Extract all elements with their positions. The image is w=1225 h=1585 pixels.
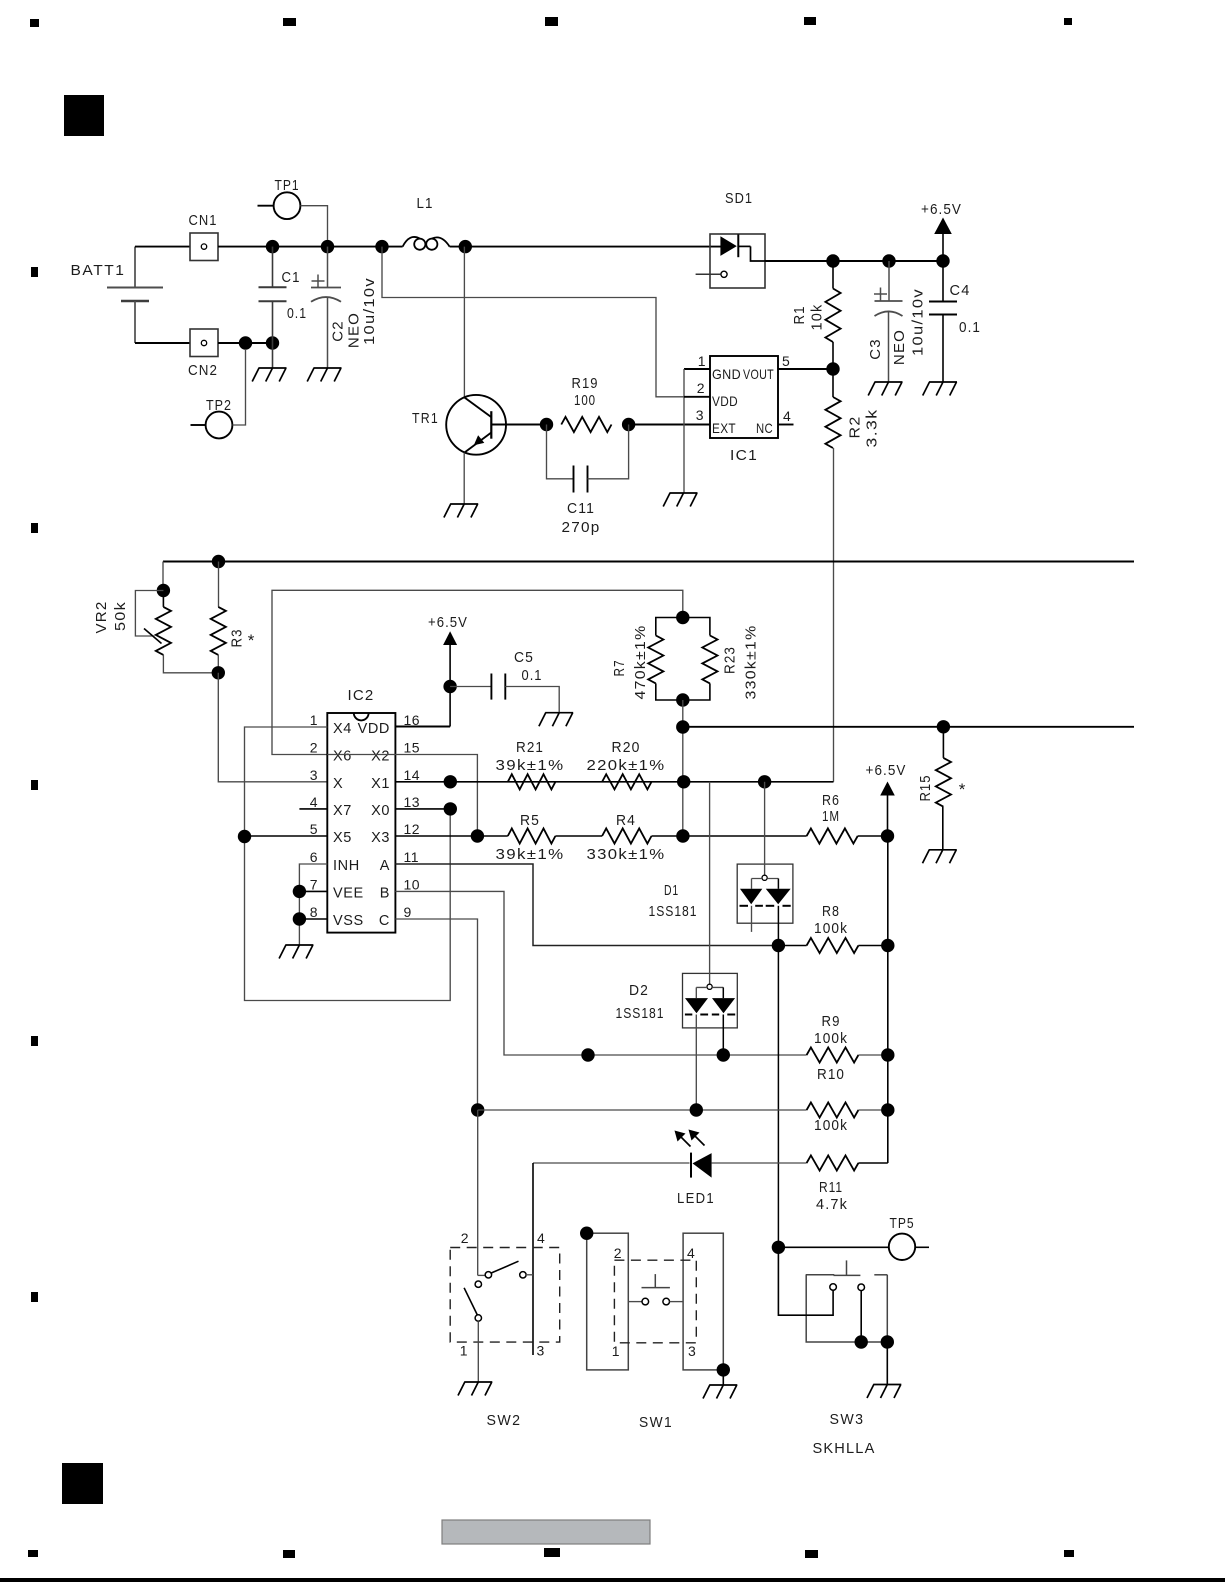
resistor R4 [555, 835, 602, 837]
svg-text:R8: R8 [822, 903, 840, 920]
transistor TR1 [446, 395, 506, 455]
svg-text:D1: D1 [664, 882, 679, 899]
wire SW2 pin1 to ground [477, 1321, 479, 1382]
node junction SW1 top left [580, 1227, 593, 1240]
wire X4 U-route to X1 X0 [245, 727, 451, 1001]
resistor R6 [683, 835, 807, 837]
svg-text:X7: X7 [333, 803, 352, 819]
wire D1 cathode down to TP5 node [777, 946, 779, 1248]
wire rail corner down to VR2 [162, 562, 164, 591]
wire TP2 to negative net [232, 349, 245, 425]
svg-text:X5: X5 [333, 830, 352, 846]
svg-text:100k: 100k [814, 1030, 848, 1047]
node junction R15 top [937, 720, 950, 733]
potentiometer VR2 [162, 591, 164, 607]
ground C1 [252, 368, 286, 382]
pin 2 VDD IC1 [684, 396, 710, 398]
svg-text:X0: X0 [371, 803, 390, 819]
wire R7R23 bottom to sense line [682, 700, 684, 836]
svg-text:NEO: NEO [346, 312, 363, 348]
pin 4 NC IC1 [778, 424, 794, 426]
node junction C1 bottom [266, 336, 279, 349]
svg-text:X1: X1 [371, 776, 390, 792]
node junction C route corner [471, 1103, 484, 1116]
svg-text:39k±1%: 39k±1% [496, 846, 565, 863]
svg-text:1: 1 [612, 1343, 620, 1359]
ground SW3 [867, 1385, 901, 1399]
wire feedback L1 node to IC1 VDD [382, 247, 710, 397]
svg-text:1: 1 [460, 1343, 468, 1359]
resistor R11 [807, 1155, 859, 1170]
wire battery positive to CN1 [135, 246, 190, 248]
wire IC1 GND to ground [683, 369, 685, 493]
resistor R1 [832, 261, 834, 289]
svg-text:CN1: CN1 [189, 212, 218, 229]
node junction D1 top [758, 775, 771, 788]
svg-text:R21: R21 [516, 739, 544, 756]
svg-text:5: 5 [310, 821, 318, 837]
node junction TP5 tap [772, 1241, 785, 1254]
svg-text:VDD: VDD [358, 721, 390, 737]
svg-text:0.1: 0.1 [959, 319, 981, 336]
svg-text:11: 11 [404, 849, 420, 865]
svg-text:D2: D2 [629, 982, 649, 999]
svg-text:+6.5V: +6.5V [921, 201, 962, 218]
svg-text:X: X [333, 776, 343, 792]
svg-text:A: A [380, 858, 390, 874]
node junction R8 rail [881, 939, 894, 952]
svg-text:R15: R15 [917, 775, 934, 802]
connector CN2 [190, 329, 218, 357]
svg-text:X4: X4 [333, 721, 352, 737]
svg-text:15: 15 [404, 740, 421, 756]
svg-text:R19: R19 [572, 375, 599, 392]
resistor R7 [656, 618, 683, 636]
LED LED1 [533, 1162, 690, 1164]
svg-text:100k: 100k [814, 920, 848, 937]
svg-text:R20: R20 [612, 739, 641, 756]
node junction R19 left [540, 418, 553, 431]
svg-text:L1: L1 [417, 195, 434, 212]
svg-text:100: 100 [574, 392, 596, 409]
node junction D2 left [690, 1103, 703, 1116]
svg-text:R2: R2 [847, 416, 864, 439]
node junction R19 right [622, 418, 635, 431]
svg-text:VOUT: VOUT [743, 366, 774, 382]
svg-text:16: 16 [404, 712, 421, 728]
svg-text:C5: C5 [514, 649, 534, 666]
node junction SW3 common [855, 1335, 868, 1348]
resistor R9 [807, 1047, 859, 1062]
svg-text:C1: C1 [282, 269, 301, 286]
svg-text:1SS181: 1SS181 [649, 903, 698, 920]
resistor R2 [832, 369, 834, 397]
inductor L1 [414, 239, 425, 250]
node junction VSS [293, 912, 306, 925]
svg-text:9: 9 [404, 904, 412, 920]
node junction X3 R5 [471, 829, 484, 842]
svg-text:X3: X3 [371, 830, 390, 846]
svg-text:R23: R23 [722, 646, 739, 674]
svg-text:3: 3 [696, 407, 704, 423]
node junction C1 top [266, 240, 279, 253]
resistor R21 [508, 774, 556, 789]
svg-text:C: C [379, 913, 390, 929]
svg-text:CN2: CN2 [188, 362, 218, 379]
svg-text:1SS181: 1SS181 [616, 1005, 665, 1022]
svg-text:VEE: VEE [333, 885, 364, 901]
wire X1 line to R2 [395, 781, 833, 783]
wire R10 line [478, 1109, 807, 1111]
node junction R7 R23 bottom [676, 693, 689, 706]
node junction R6 right rail [881, 829, 894, 842]
svg-text:2: 2 [697, 380, 705, 396]
node junction SW1 bottom right [717, 1363, 730, 1376]
ground C2 [307, 368, 341, 382]
ground R15 [923, 850, 957, 864]
diode D1 box [737, 864, 793, 923]
diode SD1 [720, 236, 736, 256]
svg-text:R3: R3 [229, 629, 246, 648]
svg-text:470k±1%: 470k±1% [632, 625, 649, 700]
svg-text:SW1: SW1 [639, 1414, 673, 1431]
svg-text:2: 2 [310, 740, 318, 756]
node junction VEE [293, 885, 306, 898]
node junction X0 tie [444, 802, 457, 815]
svg-text:330k±1%: 330k±1% [587, 846, 666, 863]
svg-text:TP2: TP2 [206, 397, 232, 414]
node junction L1 right [459, 240, 472, 253]
node junction TP2 tap [239, 336, 252, 349]
ground C3 [868, 382, 902, 396]
svg-text:4.7k: 4.7k [816, 1196, 848, 1213]
node junction SW1 drop [581, 1048, 594, 1061]
wire battery negative to CN2 [135, 342, 190, 344]
pin stub X7 [299, 808, 327, 810]
svg-text:TR1: TR1 [412, 410, 439, 427]
svg-text:IC2: IC2 [348, 687, 375, 704]
svg-text:R6: R6 [822, 792, 840, 809]
node junction R20 right [677, 775, 690, 788]
wire TP1 to main net [300, 206, 327, 240]
resistor R8 [807, 938, 859, 953]
svg-text:10: 10 [404, 876, 421, 892]
wire X6 route pin2 to R7 R23 [272, 590, 683, 754]
op-amp IC1 box [710, 356, 778, 438]
pin 5 VOUT IC1 [778, 368, 833, 370]
diode D2 [709, 782, 711, 984]
svg-text:+6.5V: +6.5V [866, 762, 907, 779]
wire TR1 emitter to ground [463, 453, 465, 504]
svg-text:8: 8 [310, 904, 318, 920]
node junction R9 rail [881, 1048, 894, 1061]
svg-text:10u/10v: 10u/10v [361, 277, 378, 345]
diode D1 [764, 782, 766, 875]
resistor R19 [561, 417, 611, 432]
capacitor C5 [450, 686, 491, 688]
svg-text:50k: 50k [112, 601, 129, 631]
svg-text:B: B [380, 885, 390, 901]
svg-text:10u/10v: 10u/10v [910, 288, 927, 356]
node junction C3 top [882, 254, 895, 267]
node junction VR2 R3 bottom [212, 666, 225, 679]
node junction R3 top [212, 555, 225, 568]
node junction R1 top [826, 254, 839, 267]
wire X0 stub [395, 808, 450, 810]
switch SW3 button [846, 1260, 848, 1275]
capacitor C1 [272, 247, 274, 288]
svg-text:R10: R10 [817, 1066, 845, 1083]
node junction D1 R8 [772, 939, 785, 952]
node junction SW3 ground leg [881, 1335, 894, 1348]
wire B route pin10 down [395, 891, 806, 1055]
battery BATT1 [134, 247, 136, 288]
svg-text:*: * [248, 631, 255, 650]
switch SW1 contacts [628, 1301, 642, 1303]
svg-text:C4: C4 [950, 282, 971, 299]
wire INH VEE VSS tie [299, 864, 327, 945]
capacitor C11 [547, 425, 574, 479]
ground IC1 [663, 493, 697, 507]
ground C5 [539, 713, 573, 727]
wire sense line to right edge [683, 726, 1134, 728]
power +6.5V at C4 [934, 218, 952, 235]
svg-text:NC: NC [756, 420, 773, 436]
ground SW2 [458, 1382, 492, 1396]
svg-text:C2: C2 [330, 320, 347, 342]
node junction X1 tie [444, 775, 457, 788]
svg-text:R1: R1 [791, 306, 808, 325]
multiplexer IC2 box [327, 713, 395, 933]
svg-text:LED1: LED1 [677, 1190, 715, 1207]
wire A route pin11 to R8 line [395, 864, 778, 946]
wire LED cathode to SW2 pin4 [532, 1163, 534, 1355]
test point TP2 [206, 412, 233, 439]
switch SW2 outline [450, 1248, 560, 1343]
wire R19 right to IC1 EXT [629, 424, 710, 426]
resistor R10 [807, 1102, 859, 1117]
ground IC2 [279, 945, 313, 959]
resistor R15 [942, 727, 944, 758]
svg-text:6: 6 [310, 849, 318, 865]
wire R2 bottom to X1 feedback line [833, 448, 835, 782]
svg-text:R9: R9 [822, 1013, 841, 1030]
svg-text:IC1: IC1 [730, 447, 758, 464]
wire +6.5V rail down [887, 836, 889, 1163]
svg-text:3: 3 [688, 1343, 696, 1359]
svg-text:220k±1%: 220k±1% [587, 757, 666, 774]
resistor R5 [477, 835, 507, 837]
svg-text:VDD: VDD [712, 393, 738, 409]
switch SW3 body [806, 1274, 835, 1276]
ground SW1 [703, 1385, 737, 1399]
wire VDD pin 16 riser [449, 645, 451, 727]
svg-text:SKHLLA: SKHLLA [813, 1440, 876, 1457]
node junction R7 R23 top [676, 611, 689, 624]
svg-text:4: 4 [783, 408, 791, 424]
svg-text:R11: R11 [819, 1179, 843, 1196]
wire negative net CN2 to C1 bottom [218, 342, 273, 344]
svg-text:C11: C11 [567, 500, 595, 517]
wire X2 to X3 line [327, 755, 477, 837]
svg-text:TP1: TP1 [275, 177, 300, 194]
svg-text:330k±1%: 330k±1% [743, 625, 760, 700]
svg-text:+6.5V: +6.5V [428, 614, 468, 631]
svg-text:12: 12 [404, 821, 421, 837]
svg-text:14: 14 [404, 767, 421, 783]
node junction sense rail [676, 720, 689, 733]
svg-text:X6: X6 [333, 749, 352, 765]
svg-text:R4: R4 [616, 812, 636, 829]
switch SW1 button [654, 1274, 656, 1288]
wire SW1 to ground [722, 1370, 724, 1385]
svg-text:C3: C3 [867, 338, 884, 360]
node junction X5 tap [238, 830, 251, 843]
wire SD1 output to C4 [765, 260, 943, 262]
ground C4 [923, 382, 957, 396]
switch SW3 contacts [830, 1284, 837, 1291]
capacitor C2 electrolytic [327, 247, 329, 288]
node junction L1 left [375, 240, 388, 253]
svg-text:NEO: NEO [891, 329, 908, 365]
capacitor C4 [942, 261, 944, 302]
switch SW2 contacts [478, 1274, 485, 1276]
svg-text:VR2: VR2 [93, 601, 110, 634]
capacitor C3 electrolytic [888, 261, 890, 301]
wire main positive net CN1 to SD1 [218, 246, 403, 248]
power +6.5V at R6 [880, 782, 895, 796]
wire R3 bottom to IC2 pin X [218, 673, 327, 782]
connector CN1 [190, 233, 218, 261]
wire L1 to TR1 collector [463, 247, 465, 398]
svg-text:7: 7 [310, 876, 318, 892]
svg-text:INH: INH [333, 858, 360, 874]
node junction C5 tap [443, 680, 456, 693]
resistor R20 [602, 774, 651, 789]
diode SD1 box [710, 234, 765, 288]
svg-text:SW3: SW3 [830, 1411, 865, 1428]
pin 1 GND IC1 [684, 368, 710, 370]
svg-text:R5: R5 [520, 812, 540, 829]
svg-text:VSS: VSS [333, 913, 364, 929]
svg-text:TP5: TP5 [890, 1215, 915, 1232]
svg-text:3: 3 [537, 1343, 545, 1359]
node junction R4 R6 [676, 829, 689, 842]
svg-text:0.1: 0.1 [522, 667, 543, 684]
svg-text:1M: 1M [822, 808, 840, 825]
wire X5 to junction [245, 835, 328, 837]
switch SW1 body [587, 1233, 629, 1370]
svg-text:2: 2 [461, 1230, 469, 1246]
test point TP5 [778, 1246, 888, 1248]
svg-text:4: 4 [310, 794, 318, 810]
test point TP1 [274, 192, 301, 219]
svg-text:1: 1 [698, 353, 706, 369]
svg-text:13: 13 [404, 794, 421, 810]
svg-text:5: 5 [782, 353, 790, 369]
svg-text:10k: 10k [809, 304, 826, 331]
diode D2 box [683, 973, 738, 1028]
node junction C2 top [321, 240, 334, 253]
svg-text:*: * [959, 780, 966, 799]
svg-text:SW2: SW2 [487, 1412, 522, 1429]
svg-text:270p: 270p [562, 519, 601, 536]
ground TR1 [444, 504, 478, 518]
svg-text:39k±1%: 39k±1% [496, 757, 565, 774]
svg-text:3.3k: 3.3k [864, 409, 881, 448]
svg-text:0.1: 0.1 [287, 305, 307, 322]
power +6.5V at IC2 VDD [443, 631, 457, 645]
resistor R23 [683, 618, 710, 636]
svg-text:2: 2 [614, 1245, 622, 1261]
wire SW3 to ground [886, 1342, 888, 1385]
wire X3 line [395, 835, 477, 837]
svg-text:EXT: EXT [712, 420, 736, 436]
wire output rail to right edge [163, 561, 1134, 563]
node junction D2 right [717, 1048, 730, 1061]
svg-text:BATT1: BATT1 [71, 262, 126, 279]
svg-text:100k: 100k [814, 1117, 848, 1134]
wire C route to SW2 pin2 [477, 1110, 479, 1275]
node junction R10 rail [881, 1103, 894, 1116]
node junction VR2 top [157, 584, 170, 597]
node junction R1 R2 VOUT [826, 362, 839, 375]
svg-text:1: 1 [310, 712, 318, 728]
svg-text:3: 3 [310, 767, 318, 783]
svg-text:GND: GND [712, 366, 741, 382]
svg-text:R7: R7 [611, 660, 628, 677]
svg-text:X2: X2 [371, 749, 390, 765]
wire C route pin9 down [395, 919, 477, 1110]
svg-text:4: 4 [537, 1230, 545, 1246]
resistor R3 [218, 562, 220, 607]
node junction C4 top [936, 254, 949, 267]
svg-text:4: 4 [687, 1245, 695, 1261]
svg-text:SD1: SD1 [725, 190, 753, 207]
